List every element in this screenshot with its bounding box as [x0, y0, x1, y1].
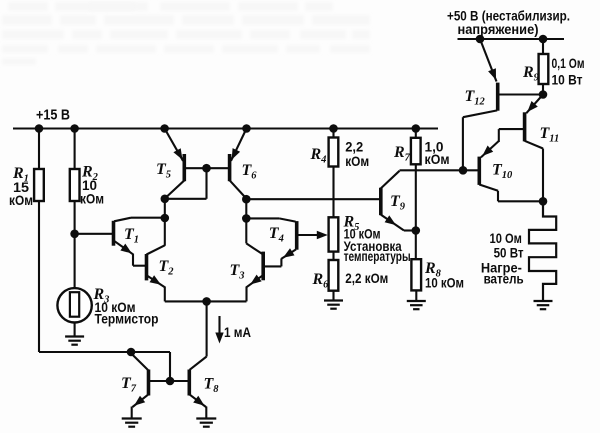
svg-text:50 Вт: 50 Вт: [494, 245, 524, 261]
svg-text:+15 В: +15 В: [36, 107, 70, 124]
svg-text:ватель: ватель: [484, 271, 524, 287]
svg-text:температуры: температуры: [344, 249, 411, 264]
svg-text:кОм: кОм: [345, 153, 369, 169]
svg-text:напряжение): напряжение): [458, 21, 539, 37]
svg-text:кОм: кОм: [80, 191, 104, 207]
svg-text:0,1 Ом: 0,1 Ом: [552, 55, 585, 71]
svg-text:кОм: кОм: [425, 151, 450, 167]
svg-text:1 мА: 1 мА: [224, 324, 251, 340]
svg-text:Термистор: Термистор: [95, 311, 159, 327]
svg-text:10 кОм: 10 кОм: [425, 275, 464, 291]
svg-text:кОм: кОм: [9, 192, 33, 208]
svg-text:10 Вт: 10 Вт: [552, 72, 583, 88]
svg-text:2,2 кОм: 2,2 кОм: [345, 270, 388, 286]
